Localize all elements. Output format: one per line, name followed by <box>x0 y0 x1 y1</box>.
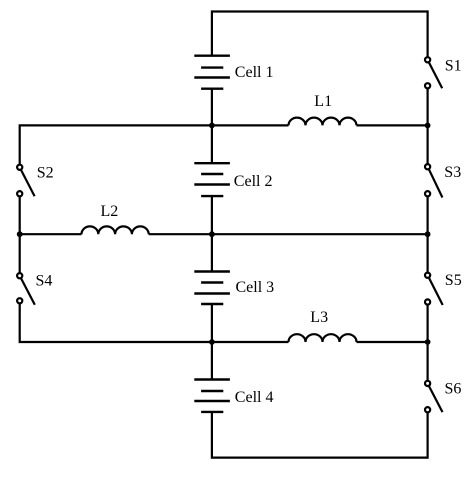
switch S2 <box>17 165 34 197</box>
switch S3 <box>425 164 442 197</box>
inductor L2 <box>82 226 149 234</box>
wire: rail R3 right segment <box>357 341 428 343</box>
wire: cell2 bottom through rail R2 node to cell3 top <box>211 196 213 271</box>
svg-text:Cell 4: Cell 4 <box>235 389 274 406</box>
wire: cell1 bottom through node A to cell2 top <box>211 89 213 164</box>
wire: cell4 bottom, bottom rail, up to S6 bottom <box>212 412 428 458</box>
svg-text:S5: S5 <box>445 272 462 289</box>
svg-text:Cell 3: Cell 3 <box>236 279 275 296</box>
wire: rail R2 left segment up to L2 <box>20 233 82 235</box>
wire: S3 bottom through rail R2 node down to S5 top <box>427 196 429 272</box>
svg-text:S2: S2 <box>37 164 54 181</box>
battery Cell 4 <box>194 380 230 412</box>
svg-text:Cell 1: Cell 1 <box>235 64 274 81</box>
node: rail R3 / middle column junction <box>209 339 215 345</box>
switch S4 <box>17 273 35 305</box>
wire: S5 bottom through rail R3 node down to S6 top <box>427 305 429 381</box>
wire: top-left corner, top rail, top-right corner <box>212 12 428 58</box>
battery Cell 2 <box>194 163 230 196</box>
battery Cell 1 <box>194 56 230 89</box>
svg-text:L1: L1 <box>314 93 332 110</box>
inductor L1 <box>289 118 357 126</box>
svg-text:Cell 2: Cell 2 <box>234 173 273 190</box>
wire: S1 bottom to node, down to S3 top <box>427 88 429 164</box>
svg-text:L2: L2 <box>101 203 119 220</box>
svg-text:S1: S1 <box>445 57 462 74</box>
svg-text:L3: L3 <box>310 309 328 326</box>
battery Cell 3 <box>194 272 230 305</box>
wire: S4 bottom down to rail R3 left corner <box>20 303 289 342</box>
wire: rail R1 right segment <box>357 124 428 126</box>
node: rail R2 / middle column junction <box>209 231 215 237</box>
svg-text:S6: S6 <box>445 380 462 397</box>
wire: cell3 bottom through rail R3 node to cell4 top <box>211 304 213 380</box>
wire: rail R1 left segment and left vertical down to S2 <box>20 125 289 164</box>
node: rail R2 / right column junction <box>425 231 431 237</box>
node: rail R1 / middle column junction <box>209 123 215 129</box>
node: rail R3 / right column junction <box>425 339 431 345</box>
switch S5 <box>425 273 443 305</box>
node: rail R2 / left column junction <box>17 231 23 237</box>
switch S6 <box>425 381 443 413</box>
svg-text:S3: S3 <box>444 164 461 181</box>
node: rail R1 / right column junction <box>425 123 431 129</box>
switch S1 <box>425 57 442 88</box>
wire: S2 bottom to rail R2 left node, down to S4 top <box>19 196 21 273</box>
svg-text:S4: S4 <box>36 273 53 290</box>
wire: rail R2 right segment from L2 to right vertical <box>149 233 428 235</box>
inductor L3 <box>289 334 357 342</box>
